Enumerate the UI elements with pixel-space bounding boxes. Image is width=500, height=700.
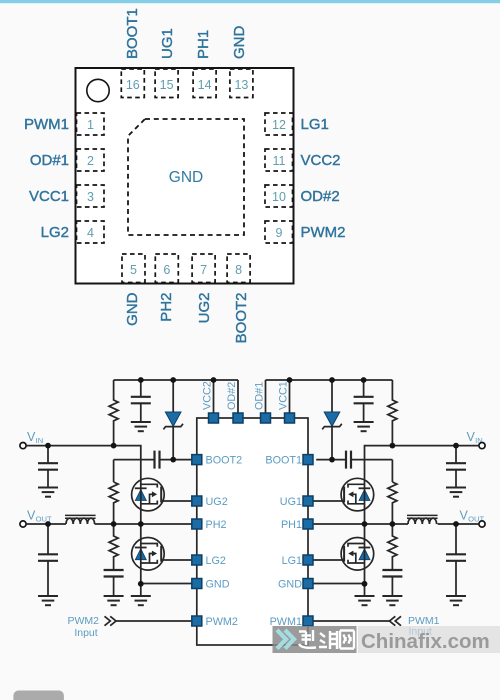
junction C1/VIN <box>45 443 51 449</box>
zener diode D2 <box>322 380 342 460</box>
wire PWM1 input <box>313 620 389 622</box>
capacitor C3 (output cap left) <box>38 524 58 596</box>
svg-text:OD#1: OD#1 <box>253 382 265 410</box>
pin 10 box <box>265 185 293 207</box>
IC pin PWM1 (right) <box>303 616 313 626</box>
pin 5 box <box>122 254 145 283</box>
capacitor C6 (input cap right) <box>446 446 466 488</box>
inductor L2 <box>407 515 438 524</box>
svg-text:GND: GND <box>124 292 141 326</box>
ground for C2 <box>131 422 151 431</box>
svg-text:OD#1: OD#1 <box>30 152 69 169</box>
svg-text:VCC1: VCC1 <box>277 381 289 410</box>
svg-text:5: 5 <box>130 263 137 277</box>
wire PWM2 input <box>116 620 192 622</box>
ground for C7 <box>446 596 466 605</box>
capacitor C2 (rail decoupling left) <box>131 380 151 422</box>
pin 6 box <box>155 254 178 283</box>
junction C2/rail <box>138 377 144 383</box>
capacitor C4 (snubber left) <box>104 570 124 596</box>
junction Q3-Q4/PH1 <box>362 521 368 527</box>
watermark text 迅维网 (simplified strokes) <box>299 630 354 649</box>
wire VOUT right lead <box>438 523 479 525</box>
wire Q4 gate to LG1 <box>313 559 344 561</box>
ground for C6 <box>446 488 466 497</box>
transistor Q2 low-side left (MOSFET) <box>132 538 165 571</box>
svg-text:IN: IN <box>36 436 44 445</box>
wire VCC2 up <box>213 380 215 418</box>
svg-text:PWM2: PWM2 <box>206 616 238 628</box>
pin 15 box <box>155 69 178 98</box>
svg-text:PH2: PH2 <box>158 293 175 322</box>
watermark band <box>273 626 500 653</box>
IC pin OD#1 (top) <box>261 413 271 423</box>
decorative gray pill <box>13 691 64 700</box>
svg-text:4: 4 <box>87 226 94 240</box>
exposed pad GND <box>128 119 244 235</box>
wire VIN left to Q1 drain <box>26 446 141 480</box>
IC pin PWM2 (left) <box>192 616 202 626</box>
pin 4 box <box>77 221 105 243</box>
wire Q4 source to ground <box>364 584 366 596</box>
svg-text:6: 6 <box>163 263 170 277</box>
svg-text:7: 7 <box>200 263 207 277</box>
junction snub-R/PH <box>390 521 396 527</box>
IC body U2 <box>197 418 308 645</box>
pin 9 box <box>265 221 293 243</box>
pin 3 box <box>77 185 105 207</box>
pin 11 box <box>265 149 293 171</box>
svg-text:UG1: UG1 <box>280 496 302 508</box>
ground for C5 <box>354 422 374 431</box>
junction D1/rail <box>170 377 176 383</box>
IC pin PH1 (right) <box>303 519 313 529</box>
wire Q3 gate to UG1 <box>313 500 344 502</box>
capacitor C7 (output cap right) <box>446 524 466 596</box>
IC pin VCC1 (top) <box>285 413 295 423</box>
wire boot left drop <box>113 460 115 482</box>
junction C3/vout <box>45 521 51 527</box>
svg-text:OD#2: OD#2 <box>301 188 340 205</box>
IC pin BOOT2 (left) <box>192 455 202 465</box>
capacitor C1 (input cap left) <box>38 446 58 488</box>
svg-text:GND: GND <box>231 26 248 60</box>
IC pin LG1 (right) <box>303 555 313 565</box>
wire VCC1 up <box>289 380 291 418</box>
pin 12 box <box>265 113 293 135</box>
svg-text:9: 9 <box>276 226 283 240</box>
junction snub-L/PH <box>111 521 117 527</box>
transistor Q1 high-side left (MOSFET) <box>132 478 165 511</box>
wire left top rail <box>114 379 238 381</box>
pin 7 box <box>192 254 215 283</box>
svg-text:LG1: LG1 <box>282 555 302 567</box>
ground for C4 <box>104 596 124 605</box>
junction R1/VIN-L <box>111 443 117 449</box>
svg-text:VCC2: VCC2 <box>301 152 341 169</box>
terminal VOUT left <box>20 521 26 527</box>
svg-text:15: 15 <box>160 78 174 92</box>
capacitor C8 (snubber right) <box>382 570 402 596</box>
capacitor C9 (bootstrap left) <box>114 451 192 469</box>
capacitor C5 (rail decoupling right) <box>354 380 374 422</box>
svg-text:Input: Input <box>74 627 97 639</box>
ground below Q4 <box>355 596 375 605</box>
svg-text:BOOT1: BOOT1 <box>265 454 302 466</box>
junction C5/rail <box>361 377 367 383</box>
svg-text:8: 8 <box>235 263 242 277</box>
resistor R1 (VCC2 rail to VIN) <box>109 380 118 446</box>
IC pin BOOT1 (right) <box>303 455 313 465</box>
wire OD#2 up <box>237 380 239 418</box>
svg-text:LG1: LG1 <box>301 116 329 133</box>
wire boot right drop <box>391 460 393 482</box>
junction C7/vout <box>453 521 459 527</box>
wire Q4 source to GND pin <box>313 583 364 585</box>
junction Q4-src/GND <box>362 581 368 587</box>
svg-text:PH1: PH1 <box>281 519 302 531</box>
resistor R4 (VCC1 rail to VIN) <box>388 380 397 446</box>
svg-text:VCC1: VCC1 <box>29 188 69 205</box>
svg-text:PH1: PH1 <box>195 30 212 59</box>
resistor R6 (snubber right) <box>388 524 397 570</box>
svg-text:GND: GND <box>278 578 302 590</box>
IC pin VCC2 (top) <box>209 413 219 423</box>
svg-text:PWM2: PWM2 <box>68 615 100 627</box>
svg-text:PWM1: PWM1 <box>24 116 69 133</box>
pin 2 box <box>77 149 105 171</box>
IC pin OD#2 (top) <box>233 413 243 423</box>
svg-text:PH2: PH2 <box>206 519 227 531</box>
wire Q2 source to GND pin <box>141 583 192 585</box>
svg-text:GND: GND <box>206 578 230 590</box>
junction R4/VIN-R <box>390 443 396 449</box>
svg-text:BOOT1: BOOT1 <box>124 8 141 59</box>
watermark chevron logo <box>277 630 294 649</box>
pin 16 box <box>121 69 144 98</box>
wire OD#1 up <box>265 380 267 418</box>
resistor R3 (snubber left) <box>109 524 118 570</box>
zener diode D1 <box>163 380 183 460</box>
inductor L1 <box>65 515 96 524</box>
svg-text:LG2: LG2 <box>41 224 69 241</box>
pin 1 box <box>77 113 105 135</box>
svg-text:LG2: LG2 <box>206 555 226 567</box>
resistor R2 (boot/snubber left upper) <box>109 482 118 524</box>
transistor Q3 high-side right (MOSFET) <box>341 478 374 511</box>
junction D1/boot <box>170 457 176 463</box>
svg-text:3: 3 <box>87 190 94 204</box>
transistor Q4 low-side right (MOSFET) <box>341 538 374 571</box>
ground for C3 <box>38 596 58 605</box>
svg-text:10: 10 <box>272 190 286 204</box>
terminal VIN left <box>20 443 26 449</box>
capacitor C10 (bootstrap right) <box>316 451 392 469</box>
svg-text:Chinafix.com: Chinafix.com <box>361 630 490 653</box>
QFN chip body U1 <box>76 68 294 284</box>
svg-text:UG1: UG1 <box>159 28 176 59</box>
pin 13 box <box>230 69 253 98</box>
junction D2/rail <box>329 377 335 383</box>
wire L1 to PH2 <box>95 523 192 525</box>
wire Q2 gate to LG2 <box>161 559 191 561</box>
svg-text:12: 12 <box>272 118 286 132</box>
IC pin LG2 (left) <box>192 555 202 565</box>
ground for C8 <box>382 596 402 605</box>
IC pin GND (left) <box>192 579 202 589</box>
wire Q2 source to ground <box>140 584 142 596</box>
wire Q1 gate to UG2 <box>161 500 191 502</box>
svg-text:BOOT2: BOOT2 <box>206 454 243 466</box>
IC pin UG1 (right) <box>303 496 313 506</box>
wire L2 to PH1 <box>313 523 408 525</box>
IC pin GND (right) <box>303 579 313 589</box>
IC pin UG2 (left) <box>192 496 202 506</box>
svg-text:13: 13 <box>234 78 248 92</box>
wire Q1/Q2 drain-source line <box>140 480 142 584</box>
junction Q1-Q2/PH2 <box>138 521 144 527</box>
junction VCC1/rail <box>287 377 293 383</box>
junction C6/VIN <box>453 443 459 449</box>
resistor R5 (boot/snubber right upper) <box>388 482 397 524</box>
wire VOUT left lead <box>26 523 66 525</box>
svg-text:UG2: UG2 <box>206 496 228 508</box>
svg-text:GND: GND <box>169 169 203 186</box>
ground below Q2 <box>131 596 151 605</box>
svg-text:BOOT2: BOOT2 <box>233 293 250 344</box>
svg-text:1: 1 <box>87 118 94 132</box>
terminal VIN right <box>479 443 485 449</box>
junction D2/boot <box>329 457 335 463</box>
svg-text:UG2: UG2 <box>196 293 213 324</box>
svg-text:14: 14 <box>198 78 212 92</box>
junction Q2-src/GND <box>138 581 144 587</box>
svg-text:VCC2: VCC2 <box>201 381 213 410</box>
svg-text:2: 2 <box>87 154 94 168</box>
pin 8 box <box>227 254 250 283</box>
IC pin PH2 (left) <box>192 519 202 529</box>
svg-text:16: 16 <box>126 78 140 92</box>
wire Q3/Q4 drain-source line <box>364 480 366 584</box>
svg-text:OD#2: OD#2 <box>226 382 238 410</box>
svg-text:11: 11 <box>273 154 286 168</box>
junction VCC2/rail <box>211 377 217 383</box>
wire VIN right to Q3 drain <box>365 446 479 480</box>
svg-text:PWM2: PWM2 <box>301 224 346 241</box>
pin 14 box <box>193 69 216 98</box>
pin-1 indicator circle <box>87 79 109 101</box>
wire right top rail <box>266 379 393 381</box>
decorative top strip <box>0 0 500 3</box>
ground for C1 <box>38 488 58 497</box>
terminal VOUT right <box>479 521 485 527</box>
